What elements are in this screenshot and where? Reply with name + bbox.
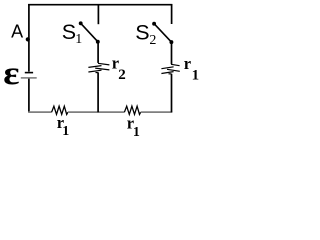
svg-text:1: 1 (133, 125, 140, 140)
resistor r1 bottom-left zigzag (52, 106, 68, 114)
svg-text:2: 2 (118, 67, 126, 83)
resistor r1 vertical zigzag (right branch) (161, 64, 179, 74)
node A (26, 37, 30, 41)
wire: middle top stub (top wire to switch S1) (97, 4, 99, 24)
battery EMF cell: long plate (bottom) (21, 77, 37, 79)
svg-text:2: 2 (149, 33, 156, 48)
wire: right vertical lower (r1 to bottom wire) (171, 74, 173, 112)
svg-text:A: A (11, 22, 23, 42)
wire: bottom middle segment (68, 111, 125, 113)
svg-text:ε: ε (3, 54, 19, 92)
wire: left vertical upper (top wire to battery) (28, 4, 30, 72)
wire: middle vertical (S1 to r2) (97, 42, 99, 63)
wire: bottom left segment (28, 111, 51, 113)
wire: middle vertical lower (r2 to bottom wire) (97, 73, 99, 113)
battery EMF cell: short plate (top) (25, 72, 33, 74)
switch S2 pivot dot (169, 40, 173, 44)
switch S1 pivot dot (96, 40, 100, 44)
resistor r1 bottom-right zigzag (124, 106, 140, 114)
switch S1 blade (81, 23, 98, 41)
resistor r2 vertical zigzag (88, 63, 109, 72)
svg-text:r: r (184, 54, 191, 73)
svg-text:1: 1 (192, 67, 200, 83)
wire: top horizontal (28, 4, 172, 6)
switch S2 blade (154, 24, 171, 42)
svg-text:1: 1 (62, 124, 69, 139)
svg-text:S: S (62, 20, 76, 44)
wire: bottom right segment (141, 111, 173, 113)
switch S1 free-end contact dot (79, 21, 83, 25)
svg-text:S: S (135, 21, 149, 45)
wire: left vertical lower (battery to bottom wire) (28, 79, 30, 113)
switch S2 free-end contact dot (152, 22, 156, 26)
wire: right vertical (S2 to r1) (171, 42, 173, 64)
wire: right top stub (top wire to switch S2) (171, 4, 173, 24)
svg-text:1: 1 (75, 32, 82, 47)
